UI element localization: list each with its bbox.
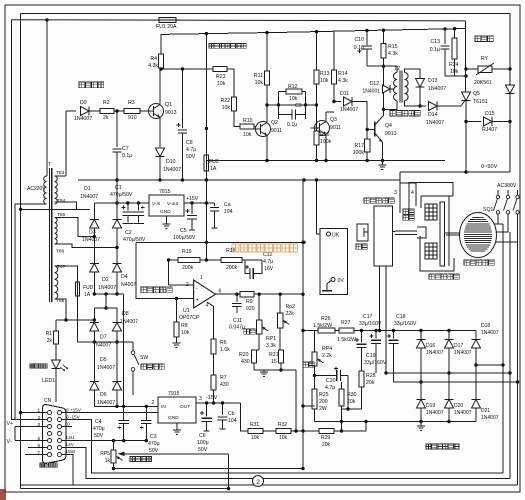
red mark corner	[0, 489, 6, 500]
resistor R28	[359, 371, 364, 387]
svg-text:1N4007: 1N4007	[80, 194, 98, 200]
diode D13	[416, 79, 425, 88]
label clutch	[429, 274, 459, 279]
svg-text:0.1μ: 0.1μ	[430, 47, 440, 53]
node f2	[374, 329, 377, 332]
wire phase3	[493, 214, 518, 242]
wire UK feed	[317, 180, 327, 234]
wire tach out1	[379, 266, 381, 331]
node c20l	[313, 374, 316, 377]
svg-text:R13: R13	[320, 71, 330, 77]
svg-text:470μ/50V: 470μ/50V	[110, 192, 133, 198]
capacitor C17	[375, 331, 377, 339]
node f1	[360, 329, 363, 332]
svg-text:C7: C7	[122, 146, 129, 152]
wire T2 prim bottom	[384, 101, 398, 110]
capacitor Cb	[222, 403, 224, 415]
resistor R3	[124, 108, 140, 113]
wire raw neg rail	[94, 405, 158, 407]
fuse FU1	[159, 18, 176, 23]
wire inner loop	[21, 12, 510, 14]
wire Q3 collector	[325, 112, 327, 122]
svg-text:50V: 50V	[186, 154, 196, 160]
svg-text:D19: D19	[426, 403, 435, 409]
node b2o	[115, 405, 118, 408]
svg-text:9011: 9011	[271, 128, 282, 134]
svg-text:FU1 20A: FU1 20A	[156, 24, 177, 30]
label aviation plug	[40, 463, 57, 467]
node x303a	[301, 241, 304, 244]
svg-text:10k: 10k	[289, 96, 298, 102]
wire r26-r27	[335, 330, 339, 332]
wire pin14	[62, 448, 510, 479]
ground prop	[263, 370, 265, 372]
node c6t	[205, 401, 208, 404]
label speed adjust	[130, 457, 152, 462]
node r30b	[340, 420, 343, 423]
svg-text:IN: IN	[161, 404, 166, 410]
wire output	[216, 293, 241, 295]
wire R15 bottom	[383, 58, 385, 66]
diode D10	[156, 148, 165, 157]
svg-text:RP4: RP4	[322, 346, 332, 352]
svg-text:33μ/160V: 33μ/160V	[364, 360, 387, 366]
svg-text:N4007: N4007	[121, 282, 136, 288]
wire r29 right	[334, 422, 366, 432]
resistor R26	[318, 328, 335, 333]
svg-text:-15V: -15V	[206, 395, 218, 401]
svg-text:D6: D6	[100, 392, 107, 398]
svg-text:6: 6	[38, 443, 41, 449]
svg-text:D21: D21	[481, 408, 490, 414]
svg-text:OUT: OUT	[180, 404, 190, 410]
node c11	[235, 293, 238, 296]
wire pin15	[62, 455, 73, 485]
svg-text:9011: 9011	[330, 125, 341, 131]
wire T88	[55, 299, 67, 320]
svg-text:1A: 1A	[84, 292, 91, 298]
svg-text:C10: C10	[354, 37, 364, 43]
svg-text:R21: R21	[269, 352, 279, 358]
svg-text:C6: C6	[199, 433, 206, 439]
motor ellipse	[460, 213, 497, 258]
svg-text:4.7μ: 4.7μ	[325, 385, 335, 391]
svg-text:7815: 7815	[159, 189, 171, 195]
resistor R27	[339, 328, 354, 333]
svg-text:4: 4	[206, 303, 209, 309]
ground trigger	[381, 161, 383, 166]
svg-text:FUD: FUD	[83, 285, 94, 291]
svg-text:U1: U1	[183, 308, 190, 314]
node q2c	[265, 103, 268, 106]
wire tap 342	[78, 341, 134, 343]
node fb	[205, 258, 208, 261]
node q3n	[315, 103, 318, 106]
wire bridge2 top	[94, 307, 117, 309]
node r7b	[212, 401, 215, 404]
wire dc rail 180	[78, 179, 400, 181]
label pulse transformer	[390, 111, 420, 116]
transistor Q3	[315, 121, 330, 136]
wire D13 bottom	[419, 88, 421, 107]
switch SQ1	[497, 190, 499, 195]
wire pin1	[21, 412, 48, 414]
label block main loop	[475, 36, 493, 42]
wire col d17	[448, 331, 450, 340]
wire loop bottom	[21, 484, 518, 486]
node g3	[324, 159, 327, 162]
node b2t	[104, 306, 107, 309]
wire rail203 corner	[93, 203, 95, 219]
RC network R12	[278, 92, 280, 120]
svg-text:10k: 10k	[255, 80, 264, 86]
resistor R32	[276, 428, 291, 433]
node cbt	[221, 401, 224, 404]
capacitor C2	[137, 203, 139, 210]
wire col116 top	[116, 180, 118, 219]
svg-text:C2: C2	[125, 230, 132, 236]
svg-text:D16: D16	[426, 343, 435, 349]
node f4	[419, 329, 422, 332]
node r180c	[158, 178, 161, 181]
svg-text:GND: GND	[168, 415, 179, 421]
svg-text:R22: R22	[220, 98, 230, 104]
svg-text:1N4007: 1N4007	[340, 107, 358, 113]
node d14	[418, 104, 421, 107]
svg-text:4.7μ: 4.7μ	[186, 147, 196, 153]
svg-text:Ca: Ca	[224, 202, 231, 208]
svg-text:2k: 2k	[47, 338, 53, 344]
label async motor	[464, 260, 494, 265]
wire RY rail	[466, 68, 478, 70]
node f3	[392, 329, 395, 332]
svg-text:Q1: Q1	[165, 102, 172, 108]
resistor R17	[366, 129, 368, 139]
diode D5 sym	[90, 381, 99, 390]
node c4b	[122, 439, 125, 442]
node a6	[453, 27, 456, 30]
wire D10 bottom	[159, 157, 161, 180]
diode D14	[413, 105, 426, 107]
svg-text:V-: V-	[7, 439, 12, 445]
node t320b	[93, 318, 96, 321]
svg-text:D9: D9	[80, 100, 87, 106]
node q5c	[464, 67, 467, 70]
svg-text:R17: R17	[354, 143, 364, 149]
label block SCR trigger	[209, 44, 246, 49]
svg-text:R2: R2	[103, 100, 110, 106]
wire R13 top	[316, 32, 318, 70]
node r180g	[315, 178, 318, 181]
svg-text:1.5k/2W: 1.5k/2W	[313, 323, 332, 329]
wire T87	[55, 266, 78, 282]
svg-text:430: 430	[220, 382, 229, 388]
capacitor C20	[315, 375, 337, 377]
node w1	[205, 241, 208, 244]
node c203c	[137, 201, 140, 204]
wire col116 mid	[116, 228, 118, 263]
transistor Q2	[256, 122, 271, 137]
ground R8	[176, 337, 178, 343]
wire led down	[55, 369, 57, 402]
wire R11-collector	[266, 85, 268, 122]
transformer T2 core	[399, 71, 401, 103]
wire fu2 cont	[205, 180, 207, 260]
svg-text:3.3k: 3.3k	[266, 343, 276, 349]
transformer primary	[44, 176, 47, 204]
svg-text:R23: R23	[216, 74, 226, 80]
svg-text:0.1μ: 0.1μ	[354, 45, 364, 51]
switch SW	[131, 351, 135, 355]
svg-text:RY: RY	[481, 56, 489, 62]
wire C8 bottom	[182, 133, 184, 180]
label block phase-shift	[79, 82, 104, 88]
wire d8 down	[116, 331, 118, 381]
svg-text:200k: 200k	[182, 265, 194, 271]
svg-text:R31: R31	[250, 422, 259, 428]
label comparator	[141, 287, 172, 293]
svg-text:Q4: Q4	[385, 123, 392, 129]
wire out right	[254, 293, 304, 295]
svg-text:20k: 20k	[366, 380, 375, 386]
svg-text:0.1μ: 0.1μ	[287, 122, 297, 128]
node x303b	[301, 293, 304, 296]
capacitor C3	[145, 406, 147, 420]
wire fu2 vertical	[205, 34, 207, 155]
capacitor C4	[123, 406, 125, 420]
wire c12 fb	[261, 260, 263, 274]
node x303d	[301, 404, 304, 407]
capacitor C9	[279, 114, 293, 116]
wire -15 drop	[241, 403, 248, 431]
svg-text:1N4007: 1N4007	[98, 285, 116, 291]
svg-text:2: 2	[256, 479, 260, 486]
diode D18	[472, 339, 481, 348]
svg-text:R25: R25	[319, 392, 329, 398]
wire pin2	[169, 284, 194, 286]
node ry2	[508, 67, 511, 70]
svg-text:R1: R1	[46, 331, 53, 337]
wire r19-r18	[200, 259, 221, 261]
resistor R25	[312, 389, 317, 409]
capacitor C10	[366, 31, 368, 45]
svg-text:C1: C1	[115, 185, 122, 191]
wire phase tap3	[394, 381, 518, 383]
ground 7815	[166, 216, 168, 224]
wire primary bottom	[15, 204, 47, 420]
svg-text:10k: 10k	[251, 435, 260, 441]
svg-text:1: 1	[38, 408, 41, 414]
svg-text:D18: D18	[481, 323, 490, 329]
node a2	[265, 31, 268, 34]
wire right main drop	[509, 13, 511, 69]
label load	[356, 244, 367, 249]
resistor R19	[178, 257, 200, 262]
svg-text:R16: R16	[320, 132, 330, 138]
svg-text:470μ: 470μ	[148, 441, 160, 447]
node out1	[464, 170, 467, 173]
clutch lower yoke	[420, 236, 454, 271]
svg-text:50V: 50V	[198, 447, 208, 453]
capacitor C18	[393, 331, 395, 339]
wire T85	[55, 217, 95, 236]
node pt2	[508, 371, 511, 374]
wire D14-Q5 gate	[437, 105, 461, 107]
wire R11 top	[266, 33, 268, 71]
wire d15 right	[493, 121, 511, 123]
svg-text:15W: 15W	[66, 449, 76, 454]
svg-text:10k: 10k	[450, 69, 459, 75]
resistor R31	[248, 428, 263, 433]
wire 7915 out	[196, 402, 241, 404]
diode D6 sym	[113, 381, 122, 390]
wire to transformer primary	[46, 20, 48, 176]
svg-text:3: 3	[38, 422, 41, 428]
svg-text:C4: C4	[95, 419, 102, 425]
svg-text:910: 910	[128, 115, 137, 121]
node r12b	[304, 103, 307, 106]
clutch rotor bar	[440, 202, 445, 266]
svg-text:RP5: RP5	[100, 451, 110, 457]
node t86	[115, 246, 118, 249]
wire d7 top	[93, 308, 95, 322]
wire r27 right	[354, 330, 476, 332]
node b2o3	[145, 405, 148, 408]
svg-text:R28: R28	[366, 373, 376, 379]
node a5	[443, 27, 446, 30]
svg-text:R9: R9	[246, 299, 253, 305]
svg-text:2: 2	[152, 400, 155, 406]
svg-text:Q5: Q5	[473, 91, 480, 97]
svg-text:C8: C8	[186, 140, 193, 146]
wire r18 right	[242, 259, 262, 261]
wire T83 riser	[65, 111, 67, 176]
resistor R8	[176, 298, 178, 322]
wire fu2 bottom	[205, 171, 207, 180]
svg-text:R24: R24	[449, 62, 459, 68]
node gr1	[279, 368, 282, 371]
node r421a	[419, 420, 422, 423]
motor hatch	[464, 218, 492, 252]
wire tap 320	[56, 319, 94, 321]
wire d16-d19	[420, 348, 422, 399]
wire rp1-r20	[258, 334, 260, 350]
svg-text:1N4007: 1N4007	[120, 319, 138, 325]
svg-text:1N4007: 1N4007	[481, 330, 499, 336]
svg-text:C5: C5	[180, 228, 187, 234]
label excitation winding	[403, 209, 414, 214]
box UK	[320, 229, 348, 295]
wire Q2 emitter	[266, 136, 268, 161]
wire terminal 4	[400, 183, 416, 206]
svg-text:T86: T86	[56, 249, 65, 255]
wire bridge2 feed	[105, 294, 107, 308]
svg-text:0.047μ: 0.047μ	[229, 325, 245, 331]
wire node line 105	[267, 104, 317, 106]
wire right drop	[509, 94, 511, 172]
wire 66 link	[367, 65, 397, 67]
svg-text:1N4007: 1N4007	[82, 237, 100, 243]
resistor R13	[314, 70, 319, 84]
wire rp5 wiper	[124, 453, 229, 455]
svg-text:Rp2: Rp2	[286, 304, 296, 310]
varistor RY	[478, 66, 492, 73]
wire phase tap1	[476, 364, 503, 366]
node p3	[175, 297, 178, 300]
capacitor C7	[116, 111, 118, 147]
svg-text:33μ/160V: 33μ/160V	[359, 321, 382, 327]
wire rail drop	[465, 21, 467, 29]
capacitor C11	[236, 294, 238, 302]
svg-text:22k: 22k	[286, 311, 295, 317]
node b2o2	[122, 405, 125, 408]
svg-text:T87: T87	[57, 264, 66, 270]
svg-text:D3: D3	[89, 230, 96, 236]
svg-text:D10: D10	[166, 159, 176, 165]
svg-text:50V: 50V	[94, 433, 104, 439]
wire rail 468	[114, 468, 304, 470]
winding T83-T84	[55, 176, 58, 204]
resistor R10	[240, 124, 254, 129]
wire pin7	[25, 454, 47, 456]
svg-text:R27: R27	[341, 320, 351, 326]
clutch coil block bottom	[425, 243, 437, 259]
diode D7 sym	[90, 322, 99, 331]
resistor R2	[100, 108, 114, 113]
node nb3	[115, 292, 118, 295]
svg-text:200k: 200k	[226, 265, 238, 271]
label circled 2	[253, 476, 264, 487]
resistor R23	[213, 66, 227, 71]
diode D12	[383, 66, 385, 89]
svg-text:R20: R20	[239, 352, 249, 358]
svg-text:104: 104	[228, 418, 237, 424]
wire R4 top	[160, 34, 162, 54]
svg-text:13U: 13U	[66, 435, 75, 440]
wire terminal 3	[399, 172, 401, 213]
wire bridge1 bottom	[94, 293, 123, 295]
node q5b	[464, 120, 467, 123]
svg-text:D20: D20	[454, 403, 463, 409]
capacitor C12	[245, 260, 250, 274]
node f5	[447, 329, 450, 332]
node t320a	[64, 318, 67, 321]
node g5	[381, 159, 384, 162]
node l409	[346, 407, 349, 410]
node g1	[265, 159, 268, 162]
diode D15	[466, 121, 481, 123]
svg-text:AC220V: AC220V	[27, 186, 46, 192]
svg-text:Q3: Q3	[330, 117, 337, 123]
node r180f	[302, 178, 305, 181]
resistor R11	[264, 71, 269, 85]
node r15t	[382, 29, 385, 32]
wire x296	[295, 370, 297, 431]
IC 7915 box	[158, 397, 196, 423]
wire d17-d20	[448, 348, 450, 399]
node ph3	[419, 380, 422, 383]
capacitor C6	[206, 403, 208, 416]
svg-text:R8: R8	[181, 323, 188, 329]
capacitor C5	[191, 203, 193, 214]
wire T83	[55, 175, 67, 177]
svg-text:2W: 2W	[319, 406, 327, 412]
node x303f	[301, 467, 304, 470]
svg-text:9013: 9013	[385, 131, 397, 137]
svg-text:1N4007: 1N4007	[454, 410, 472, 416]
svg-text:D2: D2	[102, 277, 109, 283]
diode D2 sym	[90, 263, 99, 272]
